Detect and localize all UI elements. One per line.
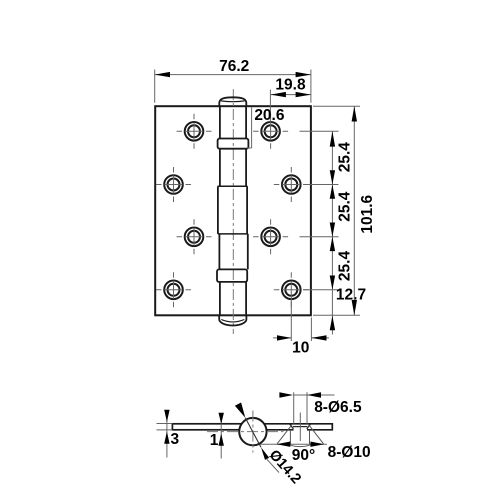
hole R3 center cross — [253, 219, 288, 254]
barrel bearing ring 2 — [217, 269, 247, 282]
screw hole L3 — [185, 228, 204, 247]
dimension 1 arrowheads — [219, 413, 224, 446]
screw hole L4 — [164, 281, 183, 300]
screw hole R1 — [261, 122, 280, 141]
dimension 76.2 line — [155, 74, 311, 76]
dimension 3 line — [166, 410, 168, 458]
O14.2 leader tail — [267, 459, 279, 472]
barrel knuckle joint line 1 — [218, 185, 248, 187]
barrel knuckle joint line 2 — [218, 233, 248, 235]
svg-text:1: 1 — [210, 432, 219, 449]
countersink throat line — [293, 426, 307, 428]
barrel segment B — [220, 149, 246, 187]
dimension 10 extension lines — [291, 298, 311, 341]
svg-text:8-Ø6.5: 8-Ø6.5 — [314, 399, 362, 416]
dimension 3 extension lines — [157, 424, 173, 430]
hole R4 center cross — [274, 272, 309, 307]
countersink V lines (90 degrees) — [277, 424, 324, 444]
dimension 19.8 line — [271, 94, 311, 96]
svg-text:25.4: 25.4 — [337, 251, 354, 282]
O14.2 lower arrowhead — [261, 447, 269, 460]
svg-text:3: 3 — [170, 431, 179, 448]
top cap inner chord — [221, 100, 245, 103]
chain bowtie at row2 — [330, 170, 335, 199]
screw hole L1 — [185, 122, 204, 141]
hole L3 center cross — [177, 219, 212, 254]
barrel segment E — [220, 282, 246, 315]
svg-text:76.2: 76.2 — [219, 58, 249, 75]
bottom cap inner chord — [221, 320, 244, 322]
screw hole R3 — [261, 228, 280, 247]
dimension 101.6 arrowheads — [352, 106, 357, 315]
chain arrowhead below bottom junction (up) — [330, 316, 335, 331]
barrel centerline — [232, 89, 234, 334]
svg-text:19.8: 19.8 — [275, 77, 306, 94]
barrel segment A — [220, 106, 246, 138]
countersink funnel below bar — [290, 430, 309, 447]
circle centerlines — [207, 431, 284, 433]
svg-text:20.6: 20.6 — [254, 107, 285, 124]
side view right leaf bar — [264, 424, 332, 430]
chain arrowhead at row4 (down) — [330, 276, 335, 290]
countersink slants in bar — [290, 424, 311, 429]
barrel bottom cap — [219, 315, 246, 325]
dimension 76.2 extension lines — [155, 70, 311, 103]
svg-text:12.7: 12.7 — [336, 286, 366, 303]
knuckle circle (side view) — [239, 418, 266, 445]
8-O6.5 extension lines — [294, 392, 307, 424]
O14.2 diameter line through circle — [245, 418, 261, 448]
hole L4 center cross — [156, 272, 191, 307]
hinge plate (front view) — [155, 106, 311, 315]
dimension 20.6 leader — [247, 108, 252, 149]
O14.2 upper arrowhead — [235, 403, 245, 418]
dimension 8-O6.5 arrowheads — [279, 392, 321, 397]
hole R1 center cross — [253, 114, 288, 149]
chain dimension line 25.4 stack — [331, 131, 333, 334]
dimension 8-O6.5 line — [294, 394, 335, 396]
101.6 extension lines — [313, 106, 360, 315]
hole centre line (side view) — [299, 413, 301, 442]
dimension 76.2 arrowheads — [155, 72, 311, 77]
hole R2 center cross — [274, 167, 309, 202]
screw hole R4 — [282, 281, 301, 300]
svg-text:101.6: 101.6 — [359, 194, 376, 233]
chain bowtie at row3 — [330, 223, 335, 252]
90 degree dimension line — [257, 443, 327, 445]
right-side row extension lines — [300, 131, 339, 289]
hole L1 center cross — [177, 114, 212, 149]
side view left leaf bar — [172, 424, 243, 430]
dimension 10 line and arrowheads — [273, 337, 329, 339]
screw hole L2 — [164, 175, 183, 194]
svg-text:10: 10 — [292, 340, 309, 357]
dimension 19.8 extension line — [269, 90, 271, 123]
barrel segment D — [219, 234, 247, 270]
dimension 3 arrowheads — [164, 410, 169, 444]
dimension 19.8 arrowheads — [271, 92, 311, 97]
90 degree arrowheads — [277, 442, 325, 447]
barrel top cap — [219, 97, 246, 106]
dimension 101.6 line — [353, 106, 355, 315]
screw hole R2 — [282, 175, 301, 194]
svg-text:25.4: 25.4 — [337, 191, 354, 222]
svg-text:90°: 90° — [292, 447, 315, 464]
svg-text:8-Ø10: 8-Ø10 — [328, 444, 371, 461]
barrel segment C — [218, 186, 247, 234]
barrel bearing ring 1 — [218, 139, 249, 149]
dimension 1 line — [220, 414, 222, 459]
svg-text:25.4: 25.4 — [337, 142, 354, 173]
hole L2 center cross — [156, 167, 191, 202]
chain arrowhead top (up) — [330, 131, 335, 146]
